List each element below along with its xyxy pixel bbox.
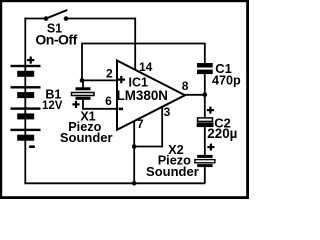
svg-text:Sounder: Sounder bbox=[146, 164, 199, 179]
wire pin 8 output bbox=[184, 94, 205, 96]
node output junction bbox=[203, 92, 208, 97]
svg-text:Sounder: Sounder bbox=[60, 130, 113, 145]
wire left rail (x=25 from corner down to battery +) bbox=[24, 18, 26, 66]
IC1 minus input mark bbox=[119, 108, 124, 111]
battery plus bbox=[27, 57, 34, 64]
wire pin 6 bbox=[82, 108, 117, 110]
wire +V vertical to pin 14 bbox=[134, 18, 136, 70]
battery B1 bbox=[11, 65, 41, 141]
svg-text:14: 14 bbox=[139, 60, 153, 74]
svg-text:LM380N: LM380N bbox=[117, 88, 168, 103]
battery minus bbox=[29, 145, 35, 148]
wire node vertical x=82 bbox=[81, 43, 83, 81]
node pin7 junction bbox=[132, 144, 137, 149]
X2 plus bbox=[207, 144, 214, 151]
wire right vertical top (to C1) bbox=[204, 43, 206, 64]
wire bypass top (node to C1) y=43 bbox=[82, 43, 205, 45]
node pin2/X1 junction bbox=[80, 78, 85, 83]
wire C1 to output node bbox=[204, 74, 206, 117]
switch S1 bbox=[44, 10, 69, 21]
svg-text:8: 8 bbox=[182, 79, 189, 93]
wire pin7 to pin3 bbox=[134, 146, 162, 148]
border frame bbox=[0, 0, 249, 199]
wire ground drop x=134 bbox=[133, 147, 135, 184]
wire C2 to X2 bbox=[204, 127, 206, 155]
svg-text:6: 6 bbox=[105, 94, 112, 108]
svg-text:12V: 12V bbox=[42, 100, 63, 112]
svg-text:470p: 470p bbox=[212, 74, 241, 88]
svg-text:On-Off: On-Off bbox=[35, 32, 77, 48]
X1 plus bbox=[72, 101, 79, 108]
node bottom rail junction bbox=[132, 181, 137, 186]
wire pin 3 down bbox=[161, 107, 163, 148]
svg-text:2: 2 bbox=[106, 66, 113, 80]
capacitor C2 bbox=[197, 118, 214, 127]
wire top-mid (switch to +V vertical) bbox=[66, 18, 136, 20]
wire pin 2 bbox=[82, 79, 117, 81]
wire bottom rail bbox=[24, 182, 205, 184]
capacitor C1 bbox=[197, 63, 213, 74]
svg-text:7: 7 bbox=[137, 117, 144, 131]
wire battery minus down to bottom rail bbox=[24, 141, 26, 184]
svg-text:3: 3 bbox=[164, 105, 171, 119]
svg-text:220µ: 220µ bbox=[207, 126, 237, 141]
wire top-left (battery + to switch) bbox=[24, 18, 46, 20]
piezo sounder X1 bbox=[72, 80, 95, 109]
C2 plus bbox=[207, 107, 214, 114]
IC1 plus input mark bbox=[118, 76, 125, 83]
op-amp IC1 triangle bbox=[117, 61, 185, 130]
piezo sounder X2 bbox=[195, 155, 215, 184]
wire pin 7 down bbox=[133, 121, 135, 147]
